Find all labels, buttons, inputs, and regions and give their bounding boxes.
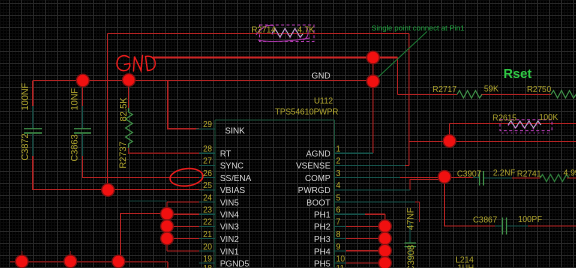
svg-text:25: 25	[203, 181, 212, 190]
wire riser x=373 GND to AGND pin	[372, 58, 374, 154]
selection box R2615 magenta dashed	[500, 120, 552, 131]
wire R2737 bottom to RT pin	[129, 148, 200, 153]
junction dot VIN4	[161, 207, 174, 220]
pin 8 stub PH3	[335, 238, 347, 240]
markup scribble over R2714	[256, 25, 310, 41]
wire PWRGD jog up	[410, 180, 444, 190]
pin stubs teal	[196, 129, 415, 263]
wire PH5	[346, 262, 385, 264]
wire PH1	[365, 213, 385, 215]
svg-text:R2717: R2717	[433, 85, 458, 94]
pin 10 stub PH5	[335, 262, 347, 264]
junction dot AGND net riser	[367, 75, 380, 88]
svg-text:24: 24	[203, 193, 212, 202]
wire vertical x=409 from 33.5 to VSENSE pin	[408, 34, 410, 166]
svg-text:COMP: COMP	[305, 173, 331, 183]
svg-text:R2737: R2737	[118, 141, 128, 168]
junction dot VIN2	[161, 232, 174, 245]
junction dot PH3	[379, 232, 392, 245]
junction dot C3863 top	[77, 74, 90, 87]
svg-text:AGND: AGND	[306, 149, 331, 159]
svg-text:100PF: 100PF	[518, 215, 542, 224]
pin 9 stub PH4	[335, 250, 347, 252]
wire SINK drop x=167.75	[168, 81, 199, 129]
svg-text:7: 7	[336, 218, 341, 227]
pin 23 stub	[199, 213, 215, 215]
green leader line to pin1 junction	[374, 32, 427, 82]
svg-text:23: 23	[203, 206, 212, 215]
wire PH2	[346, 225, 385, 227]
wire R2737 top lead red	[128, 81, 130, 109]
junction dot COMP branch	[438, 171, 451, 184]
pin 27 stub	[199, 164, 215, 166]
wire stub above bus dot1	[21, 251, 23, 262]
capacitor C3863 symbol	[74, 106, 91, 156]
resistor R2717 zigzag	[457, 91, 482, 99]
wire GND horizontal y=57.5	[153, 57, 398, 59]
svg-text:VIN4: VIN4	[220, 210, 239, 220]
junction dot bus C3863	[64, 255, 77, 268]
svg-text:PH4: PH4	[314, 246, 331, 256]
svg-text:10: 10	[336, 254, 345, 263]
pin 26 stub	[199, 177, 215, 179]
svg-text:R2750: R2750	[527, 85, 552, 94]
wire C3872 bottom to VBIAS wire	[33, 156, 204, 190]
wire COMP to dot	[400, 177, 445, 179]
svg-text:100K: 100K	[539, 113, 559, 122]
svg-text:6: 6	[336, 206, 341, 215]
svg-text:19: 19	[203, 254, 212, 263]
wire VIN4	[167, 213, 199, 215]
wire vertical x=397.5 down to y=94.4	[397, 58, 399, 95]
svg-text:59K: 59K	[484, 85, 499, 94]
svg-text:SYNC: SYNC	[220, 161, 244, 171]
resistor R2714 selected zigzag	[272, 29, 303, 39]
wire VIN1	[167, 250, 199, 252]
wire C3907 to R2741	[512, 177, 540, 179]
svg-text:PH3: PH3	[314, 234, 331, 244]
selection box R2714 magenta dashed	[260, 25, 315, 42]
wire y=123.5 to R2615	[450, 123, 576, 125]
junction dot bus C3872	[15, 255, 28, 268]
wire VIN2	[167, 238, 199, 240]
svg-text:PGND5: PGND5	[220, 258, 250, 268]
svg-text:18: 18	[203, 264, 212, 268]
svg-text:VIN1: VIN1	[220, 246, 239, 256]
svg-text:SS/ENA: SS/ENA	[220, 173, 252, 183]
svg-text:10NF: 10NF	[70, 88, 80, 111]
wire PH4	[346, 250, 385, 252]
svg-text:2.2NF: 2.2NF	[493, 169, 515, 178]
svg-text:SINK: SINK	[225, 126, 245, 136]
wire BOOT jog	[415, 202, 420, 222]
wire AGND net y=80.5	[33, 80, 373, 82]
svg-text:9: 9	[336, 242, 341, 251]
svg-text:Single point connect at Pin1: Single point connect at Pin1	[372, 24, 465, 33]
wire stub above bus dot2	[69, 251, 71, 262]
wire vertical x=107.5 from 33.5 to 190	[107, 34, 109, 191]
junction dot bus riser	[112, 255, 125, 268]
wire y=141.5 from x=409 to dot and right edge	[409, 141, 576, 143]
resistor R2615 selected zigzag	[508, 121, 541, 129]
wire COMP right to C3907	[445, 177, 474, 179]
wire C3863 top lead red	[82, 81, 84, 107]
svg-text:82.5K: 82.5K	[119, 97, 129, 122]
wire VSENSE pin to riser	[405, 164, 409, 166]
wire C3867 right to edge	[528, 225, 576, 227]
pin numbers yellow	[203, 120, 212, 268]
wire VIN ladder vertical x=167	[166, 202, 168, 251]
wire VIN5	[167, 201, 199, 203]
junction dot PH2	[379, 220, 392, 233]
wire R2741 right to edge	[567, 177, 576, 179]
pin 21 stub	[199, 238, 215, 240]
junction dot PH4	[379, 244, 392, 257]
svg-text:PH1: PH1	[314, 210, 331, 220]
svg-text:VSENSE: VSENSE	[296, 161, 331, 171]
svg-text:2: 2	[336, 157, 341, 166]
teal wire VIN5 left	[128, 200, 167, 202]
svg-text:100NF: 100NF	[20, 83, 30, 111]
wire VIN3	[167, 225, 199, 227]
pin 3 stub teal wire	[335, 177, 401, 179]
svg-text:RT: RT	[220, 149, 231, 159]
pin 25 stub	[199, 189, 215, 191]
wire COMP dot down to C3867 row	[445, 178, 496, 227]
svg-text:R2714: R2714	[252, 26, 277, 35]
svg-text:GND: GND	[312, 71, 331, 81]
pin 2 stub teal wire	[335, 164, 406, 166]
svg-text:Rset: Rset	[504, 66, 533, 81]
svg-text:VIN3: VIN3	[220, 222, 239, 232]
junction dot R2737 top	[123, 74, 136, 87]
capacitor C3872 symbol	[24, 106, 42, 156]
svg-text:26: 26	[203, 169, 212, 178]
svg-text:PWRGD: PWRGD	[298, 185, 331, 195]
svg-text:11: 11	[336, 264, 345, 268]
wire net VSENSE top horizontal y=33.5	[108, 33, 410, 35]
svg-text:20: 20	[203, 242, 212, 251]
svg-text:C3867: C3867	[473, 215, 498, 224]
pin 6 stub PH1	[335, 213, 366, 215]
junction dot net R2615/x449	[443, 135, 456, 148]
junction dot VIN3	[161, 220, 174, 233]
wire VIN feed riser x=120.5	[121, 214, 168, 262]
svg-text:C3872: C3872	[20, 133, 30, 160]
svg-text:8: 8	[336, 230, 341, 239]
pin 28 stub	[199, 152, 215, 154]
svg-text:27: 27	[203, 157, 212, 166]
svg-text:3: 3	[336, 169, 341, 178]
junction dot GND riser	[367, 51, 380, 64]
svg-text:PH5: PH5	[314, 258, 331, 268]
svg-text:C3907: C3907	[457, 169, 482, 178]
svg-text:1UH: 1UH	[458, 264, 474, 268]
junction dots (markup, big red)	[15, 51, 455, 268]
markup text GND handwritten	[117, 56, 155, 72]
svg-text:4.99K: 4.99K	[564, 169, 576, 178]
pin 7 stub PH2	[335, 225, 347, 227]
markup dots under R2615 box	[502, 132, 550, 134]
pin 20 stub	[199, 250, 215, 252]
svg-text:TPS54610PWPR: TPS54610PWPR	[275, 108, 338, 117]
wire vertical x=449.5 from 123.5 to 141.5	[449, 124, 451, 142]
pin 29 stub	[196, 128, 215, 130]
svg-text:BOOT: BOOT	[306, 197, 330, 207]
resistor R2750 zigzag	[551, 91, 576, 99]
svg-text:VIN2: VIN2	[220, 234, 239, 244]
IC U112 body outline	[215, 120, 335, 268]
pin names white	[220, 126, 252, 268]
svg-text:VBIAS: VBIAS	[220, 185, 245, 195]
wire PGND bus drop x=167.75	[167, 262, 169, 268]
wire C3863 bottom to SS/ENA wire	[83, 156, 200, 178]
pin 5 stub teal wire BOOT	[335, 201, 416, 203]
svg-text:R2615: R2615	[493, 113, 518, 122]
resistor R2741 zigzag	[540, 175, 569, 182]
svg-text:22: 22	[203, 218, 212, 227]
svg-text:1: 1	[336, 145, 341, 154]
pin 1 stub + teal wire to riser	[335, 152, 374, 154]
rotated component labels	[20, 83, 416, 268]
svg-text:U112: U112	[314, 96, 333, 105]
svg-text:C3908: C3908	[406, 245, 416, 268]
wire between R2717 and R2750	[481, 94, 551, 96]
svg-text:4: 4	[336, 181, 341, 190]
capacitor C3867 symbol series	[495, 218, 528, 235]
pin 19 stub	[199, 262, 215, 264]
wire PGND bus y=261.8	[10, 261, 168, 263]
svg-text:R2741: R2741	[517, 170, 542, 179]
svg-text:29: 29	[203, 120, 212, 129]
wire y=94.5 to R2717	[398, 94, 458, 96]
svg-text:47NF: 47NF	[406, 207, 416, 230]
resistor R2737 zigzag vertical	[126, 108, 133, 148]
wire PH ladder vertical x=385	[384, 214, 386, 268]
junction dot PH5	[379, 257, 392, 268]
wire PH3	[346, 238, 385, 240]
svg-text:PH2: PH2	[314, 222, 331, 232]
pin 4 stub teal wire	[335, 189, 411, 191]
svg-text:28: 28	[203, 145, 212, 154]
junction dot VBIAS x107.5	[102, 184, 115, 197]
capacitor C3907 symbol series	[473, 171, 512, 186]
markup ellipse around SS/ENA	[169, 167, 204, 188]
svg-text:C3863: C3863	[70, 134, 80, 161]
pin 24 stub	[199, 201, 215, 203]
svg-text:21: 21	[203, 230, 212, 239]
pin 22 stub	[199, 225, 215, 227]
svg-text:VIN5: VIN5	[220, 197, 239, 207]
capacitor C3908 symbol	[405, 222, 417, 262]
wire C3872 top lead red	[32, 81, 34, 107]
svg-text:4.7K: 4.7K	[298, 26, 315, 35]
svg-text:5: 5	[336, 193, 341, 202]
